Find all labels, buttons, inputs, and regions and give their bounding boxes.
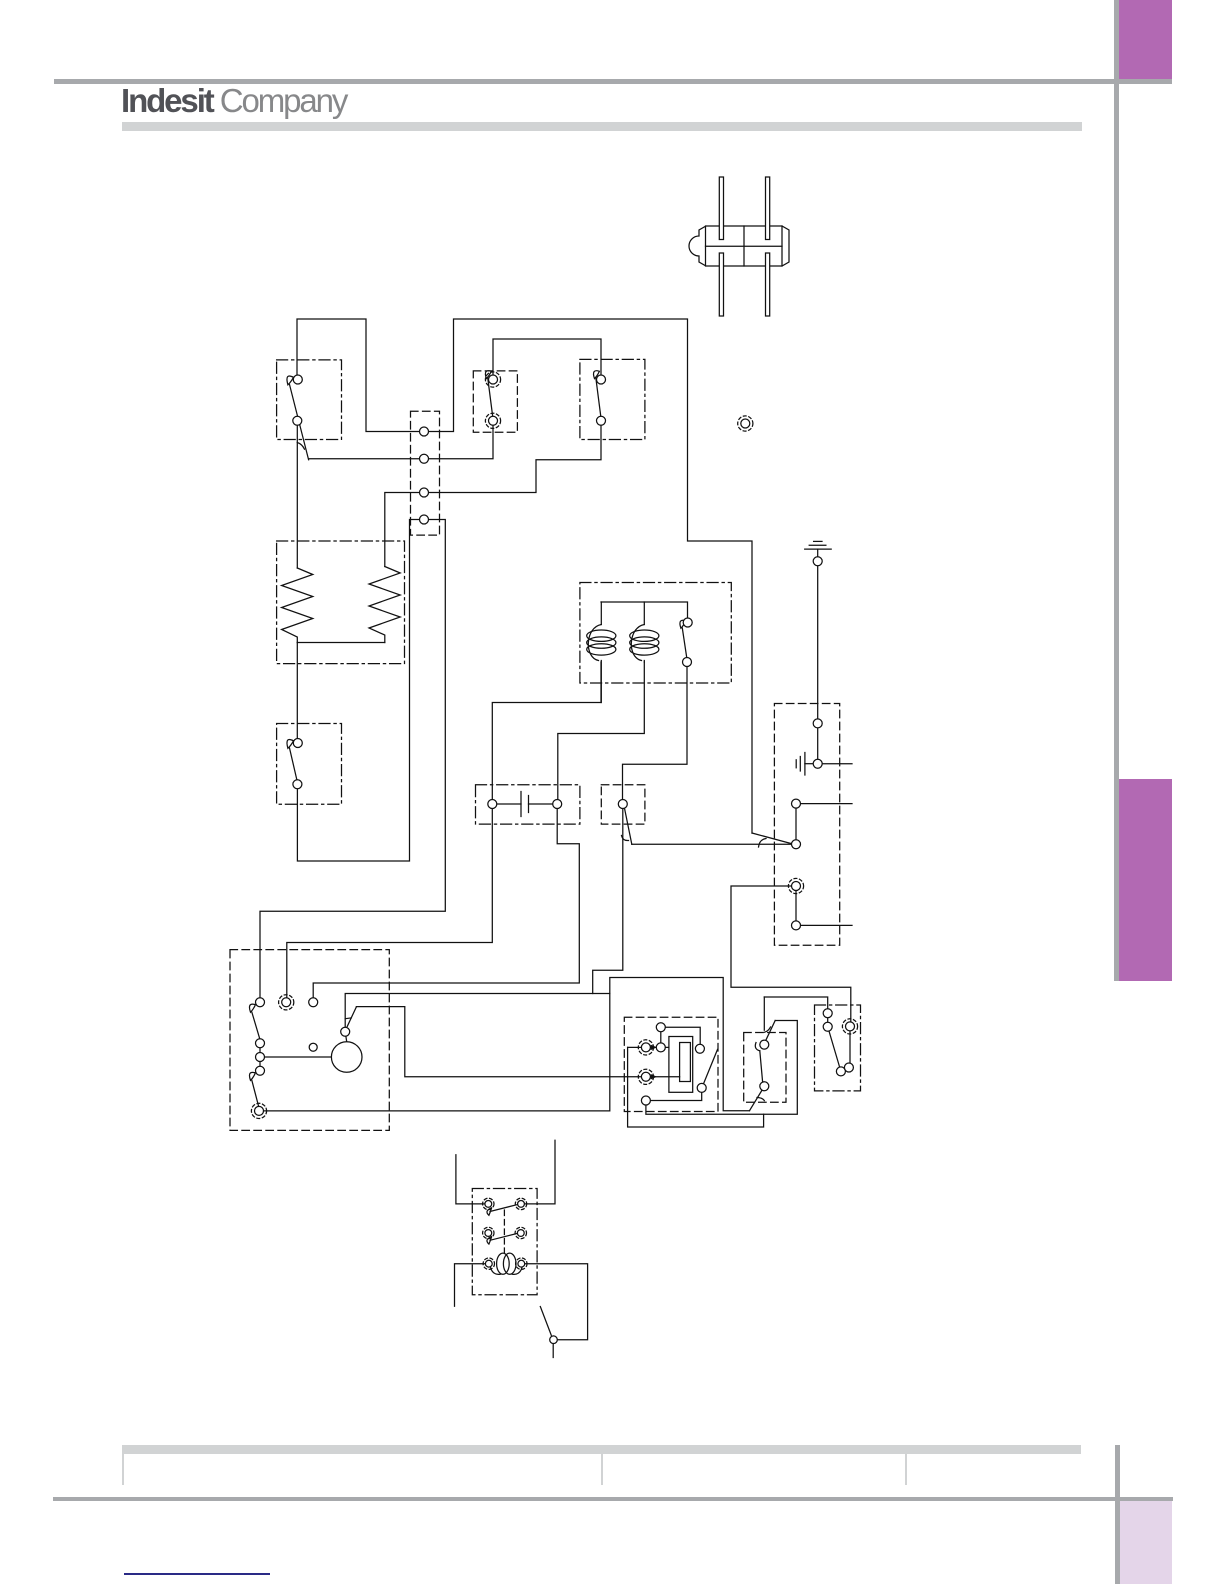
box switch S3 xyxy=(580,359,645,439)
node S1 bottom xyxy=(293,416,302,425)
dashed rings xyxy=(251,372,857,1270)
lever selector cam 2 xyxy=(249,1072,258,1106)
wire capacitor to selector pin c xyxy=(313,804,579,1002)
arrow mark b xyxy=(651,1075,655,1079)
node selector c xyxy=(309,998,318,1007)
wire S1 lever to connector pin 2 xyxy=(309,458,424,460)
node wax top xyxy=(695,1044,704,1053)
node S5 bottom xyxy=(683,658,692,667)
node S2 top xyxy=(489,375,498,384)
header top gray rule xyxy=(54,79,1172,84)
ring S2 top xyxy=(485,372,500,387)
purple block middle right xyxy=(1119,779,1172,980)
plug pin 1 xyxy=(719,177,723,316)
node wax bottom xyxy=(697,1083,706,1092)
footer tick 1 xyxy=(122,1453,124,1485)
light gray bar under logo xyxy=(122,122,1082,132)
wire motor to top contact xyxy=(345,1032,347,1042)
node selector b ring xyxy=(282,998,291,1007)
footer light gray bar xyxy=(122,1445,1081,1454)
transformer internal divider xyxy=(503,1210,505,1253)
node micro 2 xyxy=(823,1022,832,1031)
node selector a xyxy=(256,998,265,1007)
ring wax wire xyxy=(638,1069,653,1084)
resistor R2 xyxy=(369,567,400,643)
coil K1b xyxy=(630,602,659,662)
wire coil K1a to capacitor C1 xyxy=(492,662,601,804)
box door lock switch xyxy=(744,1033,786,1103)
wire buzzer stub xyxy=(552,1340,554,1358)
coil K1a xyxy=(587,602,616,703)
ring selector b xyxy=(279,995,294,1010)
lever S5 xyxy=(680,620,687,658)
node S3 bottom xyxy=(597,416,606,425)
transformer coil TR1 xyxy=(491,1253,523,1274)
node transformer 1 xyxy=(485,1201,492,1208)
node interlock 4 xyxy=(792,840,801,849)
node wax wire ring xyxy=(641,1072,650,1081)
node selector cam b xyxy=(256,1053,265,1062)
node interlock 5 xyxy=(792,882,801,891)
wire T1 row xyxy=(628,1046,669,1048)
wire connector pin 3 to S3 xyxy=(424,421,601,493)
node S3 top xyxy=(597,375,606,384)
footer tick 3 xyxy=(905,1453,907,1485)
lever buzzer switch xyxy=(540,1307,551,1336)
box switch S1 xyxy=(277,360,342,440)
wire interlock internal a xyxy=(817,723,819,763)
box switch S2 xyxy=(473,371,517,432)
lever S2 xyxy=(485,371,492,417)
wire thermostat T1 link xyxy=(661,1027,700,1049)
lever transformer sw1 xyxy=(487,1205,517,1216)
wire interlock stub a xyxy=(818,763,852,765)
blue footer underline xyxy=(124,1573,270,1575)
wire capacitor to selector pin b xyxy=(287,804,493,1002)
node S4 bottom xyxy=(293,780,302,789)
node T1 top xyxy=(656,1023,665,1032)
lever door lock bottom xyxy=(750,1091,765,1111)
node door lock bottom xyxy=(760,1082,769,1091)
wire earth to interlock xyxy=(817,561,819,723)
node T1 mid xyxy=(656,1043,665,1052)
resistor R1 xyxy=(282,568,313,643)
wire S6 lever to door interlock xyxy=(632,843,796,845)
node selector cam c xyxy=(256,1066,265,1075)
node C1 left xyxy=(488,800,497,809)
plug pin 2 xyxy=(766,177,770,316)
wire coil K1b to capacitor C1 xyxy=(558,662,645,804)
lever door lock top xyxy=(755,1021,775,1082)
node S1 top xyxy=(293,375,302,384)
lever S4 xyxy=(287,739,297,780)
motor M xyxy=(331,1042,362,1073)
node interlock 2 xyxy=(813,759,822,768)
wire connector pin 3 to R2 xyxy=(385,493,424,567)
lamp HL1 xyxy=(741,419,750,428)
wire micro internal xyxy=(827,1013,829,1026)
lever S6 xyxy=(622,808,632,844)
lever wax relay xyxy=(704,1050,718,1084)
wire to micro switch xyxy=(764,997,827,1013)
ring transformer 2 xyxy=(515,1198,526,1209)
box capacitor C1 xyxy=(476,785,580,824)
wire connector pin 4 to S4 xyxy=(297,520,424,862)
wire mains left loop xyxy=(297,319,424,432)
arrow mark a xyxy=(651,1046,655,1050)
node selector bottom ring xyxy=(255,1106,264,1115)
node selector cam a xyxy=(256,1039,265,1048)
box relay K1 xyxy=(580,583,731,684)
wire mains right loop xyxy=(424,319,752,833)
capacitor C1 plates xyxy=(497,792,553,817)
lever transformer sw2 xyxy=(487,1233,517,1244)
ring selector bottom xyxy=(251,1103,266,1118)
wire interlock bypass xyxy=(731,886,851,1026)
vertical gray rule right xyxy=(1114,0,1119,981)
node thermo bottom xyxy=(641,1096,650,1105)
ring transformer 1 xyxy=(483,1198,494,1209)
wire motor contact to pressure vessel xyxy=(345,994,610,1032)
wire door lock feed xyxy=(763,997,765,1030)
wire transformer feed right xyxy=(522,1140,556,1204)
footer vertical gray rule xyxy=(1115,1445,1120,1584)
lever selector cam 1 xyxy=(249,1004,259,1039)
wire interlock stub c xyxy=(796,924,852,926)
box door interlock xyxy=(774,704,839,946)
ring micro xyxy=(842,1019,857,1034)
ring transformer 4 xyxy=(515,1227,526,1238)
wire thermo cutout xyxy=(646,1088,702,1101)
wire relay contact to S6 xyxy=(623,662,688,804)
box heater group xyxy=(277,541,405,664)
wire selector motor link xyxy=(260,1056,331,1058)
node micro ring xyxy=(846,1022,855,1031)
node interlock 1 xyxy=(813,719,822,728)
node transformer 5 xyxy=(485,1260,492,1267)
terminal circles xyxy=(255,375,855,1343)
node interlock 3 xyxy=(792,799,801,808)
wire selector cam chain xyxy=(259,1043,261,1071)
mains suppressor filter X1 body xyxy=(689,226,789,266)
pin J1-2 xyxy=(420,454,429,463)
node C1 right xyxy=(553,800,562,809)
ring transformer 3 xyxy=(483,1227,494,1238)
node interlock 6 xyxy=(792,921,801,930)
node micro 3 xyxy=(836,1067,845,1076)
pin J1-3 xyxy=(420,488,429,497)
box switch S6 xyxy=(601,785,645,824)
pin J1-4 xyxy=(420,515,429,524)
wire pressure lower run xyxy=(628,1047,764,1127)
ring S2 bottom xyxy=(485,413,500,428)
footer tick 2 xyxy=(601,1453,603,1485)
purple block top right xyxy=(1119,0,1173,79)
lavender block bottom right xyxy=(1119,1501,1172,1584)
lever interlock xyxy=(752,833,791,847)
node selector float xyxy=(309,1043,317,1051)
box transformer xyxy=(472,1189,537,1295)
wire micro right branch xyxy=(849,1026,851,1067)
ring T1 xyxy=(638,1040,653,1055)
wire S6 to pressure vessel xyxy=(593,804,623,994)
lever S1 xyxy=(287,376,309,460)
lever S3 xyxy=(594,371,601,417)
node earth terminal xyxy=(813,557,822,566)
wire interlock internal c xyxy=(795,886,797,925)
wire R1 to S4 xyxy=(296,643,298,744)
lever micro switch xyxy=(828,1027,841,1072)
node micro 1 xyxy=(823,1009,832,1018)
node S5 top xyxy=(683,618,692,627)
wire T1 vertical xyxy=(660,1027,662,1047)
ring transformer 5 xyxy=(483,1258,494,1269)
node door lock top xyxy=(760,1040,769,1049)
ring transformer 6 xyxy=(516,1258,527,1269)
box connector J1 xyxy=(411,411,440,535)
wire pressure thermostat run xyxy=(646,1021,797,1115)
box pressure switch group xyxy=(624,1017,718,1111)
wax actuator body xyxy=(669,1037,693,1093)
box program selector xyxy=(230,950,389,1131)
wire transformer secondary left xyxy=(455,1264,489,1307)
ring lamp HL1 xyxy=(738,416,753,431)
box micro switch xyxy=(815,1005,861,1091)
earth symbol E1 xyxy=(805,541,832,557)
wire S2 to S3 top xyxy=(493,339,601,380)
node transformer 4 xyxy=(517,1230,524,1237)
wire relay coil top xyxy=(601,602,688,623)
node T1 ring xyxy=(641,1043,650,1052)
pin J1-1 xyxy=(420,427,429,436)
wire interlock internal b xyxy=(795,804,797,845)
earth symbol E2 xyxy=(796,753,813,776)
node S2 bottom xyxy=(489,416,498,425)
wire connector pin 4 to selector xyxy=(260,520,445,1003)
node motor top xyxy=(341,1027,350,1036)
wire transformer feed left xyxy=(456,1155,488,1204)
wire connector pin 2 to S2 xyxy=(424,421,493,459)
wire S1 to heater R1 xyxy=(296,421,298,568)
ring interlock 5 xyxy=(788,878,803,893)
lever motor contact xyxy=(345,1007,356,1027)
Indesit Company logo xyxy=(121,82,346,120)
footer gray rule xyxy=(53,1497,1173,1502)
node transformer 6 xyxy=(518,1260,525,1267)
wire interlock stub b xyxy=(796,803,852,805)
node buzzer xyxy=(550,1336,558,1344)
wire selector to pressure vessel outline xyxy=(259,978,750,1111)
node S4 top xyxy=(293,739,302,748)
node S6 xyxy=(618,800,627,809)
node micro 4 xyxy=(844,1063,853,1072)
box switch S4 xyxy=(277,724,342,805)
node transformer 3 xyxy=(485,1230,492,1237)
wire transformer secondary right xyxy=(522,1264,588,1340)
wire selector motor to wax actuator xyxy=(356,1007,679,1077)
wire heater bottoms xyxy=(297,642,385,644)
node transformer 2 xyxy=(518,1201,525,1208)
